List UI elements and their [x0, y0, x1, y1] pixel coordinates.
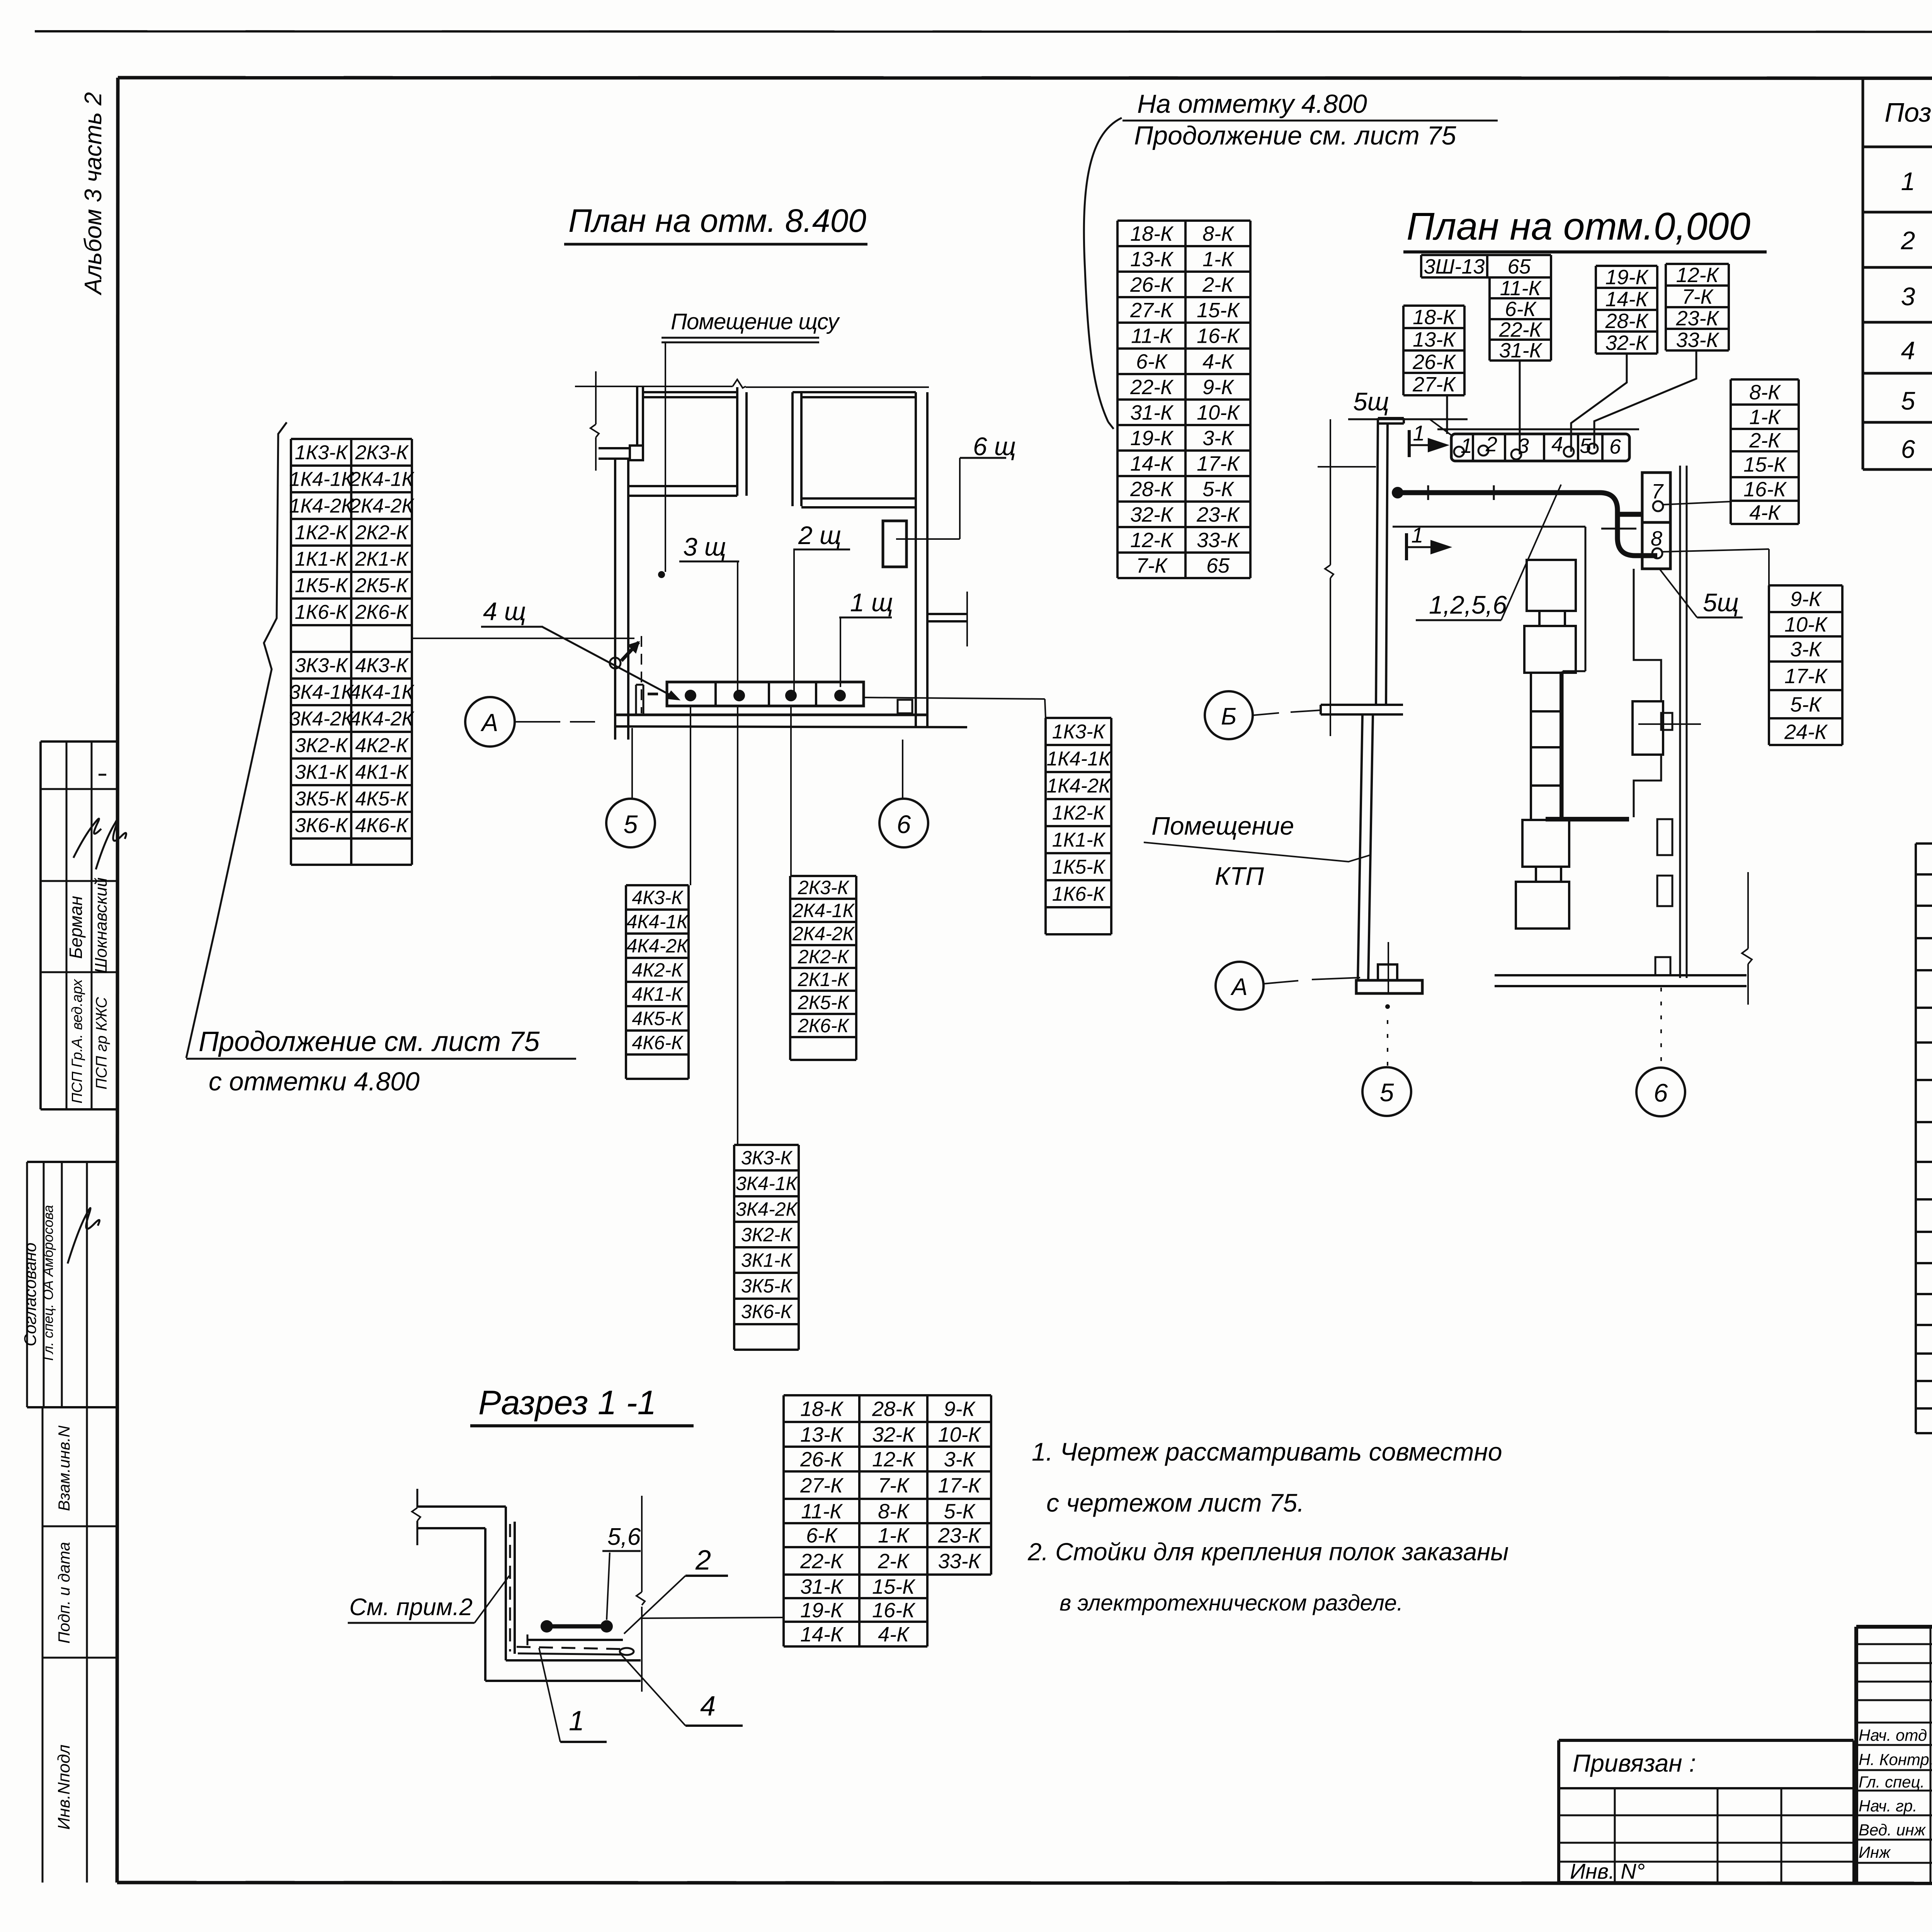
- svg-text:4 щ: 4 щ: [483, 597, 526, 626]
- plan 0,000 left wall upper: [1376, 418, 1378, 705]
- svg-text:7-К: 7-К: [878, 1474, 910, 1497]
- svg-text:3-К: 3-К: [1202, 427, 1235, 450]
- axis line top of plan 8.400: [575, 386, 733, 387]
- svg-text:3К4-2К: 3К4-2К: [289, 708, 354, 730]
- room bottom wall: [615, 714, 927, 716]
- svg-text:7-К: 7-К: [1136, 554, 1168, 577]
- tick marks on cable: [1427, 485, 1429, 500]
- svg-text:3-К: 3-К: [944, 1448, 976, 1471]
- svg-text:Инж: Инж: [1859, 1843, 1891, 1861]
- svg-text:10-К: 10-К: [1784, 613, 1828, 636]
- svg-text:1: 1: [1461, 434, 1472, 457]
- svg-text:65: 65: [1507, 255, 1531, 278]
- column table 8-К..4-К: [1731, 378, 1799, 381]
- svg-text:2-К: 2-К: [1749, 429, 1781, 452]
- svg-text:27-К: 27-К: [1130, 299, 1174, 322]
- svg-text:1К5-К: 1К5-К: [1052, 856, 1106, 878]
- svg-text:6-К: 6-К: [1505, 298, 1537, 321]
- svg-text:Б: Б: [1221, 703, 1236, 730]
- cable table 4К column (below plan): [626, 884, 689, 886]
- inner wall top left: [736, 387, 738, 496]
- svg-text:4К4-2К: 4К4-2К: [350, 708, 415, 730]
- plan 0,000 outer wall top: [1378, 417, 1404, 419]
- svg-text:1К3-К: 1К3-К: [1052, 721, 1106, 743]
- svg-text:1К2-К: 1К2-К: [1052, 802, 1106, 824]
- drawing frame: [118, 78, 1932, 78]
- svg-text:1К4-1К: 1К4-1К: [289, 468, 354, 491]
- svg-text:4: 4: [700, 1691, 716, 1722]
- dashed riser in left wall: [641, 636, 642, 713]
- heavy pneumatic cable run: [1392, 487, 1403, 498]
- svg-text:6 щ: 6 щ: [973, 432, 1016, 461]
- svg-text:2К4-2К: 2К4-2К: [792, 923, 855, 945]
- svg-text:1К6-К: 1К6-К: [1052, 883, 1106, 905]
- section wall contour: [417, 1505, 506, 1508]
- svg-text:4: 4: [1551, 433, 1563, 456]
- svg-text:2К5-К: 2К5-К: [798, 992, 850, 1014]
- wall line above strip: [1437, 429, 1639, 430]
- svg-text:33-К: 33-К: [1197, 529, 1240, 552]
- svg-text:6-К: 6-К: [1136, 350, 1168, 373]
- inner wall top middle: [791, 392, 794, 506]
- floor channel (dashed wedge): [517, 1647, 628, 1649]
- svg-text:23-К: 23-К: [1196, 503, 1240, 526]
- title block signature grid: [1856, 1643, 1932, 1645]
- sheet top edge line: [35, 31, 1932, 32]
- grid bubble А plan 8.400: [465, 697, 515, 747]
- svg-text:1: 1: [1413, 421, 1425, 445]
- wall stub top left: [636, 387, 638, 447]
- svg-text:2К4-1К: 2К4-1К: [349, 468, 415, 491]
- bracket curve top left of plan 0,000: [1084, 118, 1122, 422]
- svg-text:Помещение: Помещение: [1151, 811, 1294, 840]
- svg-text:Берман: Берман: [66, 896, 86, 959]
- grid bubble 6 plan 0,000: [1660, 988, 1662, 1066]
- svg-text:9-К: 9-К: [944, 1397, 976, 1420]
- svg-text:11-К: 11-К: [1131, 324, 1173, 347]
- section marker 1-1 lower: [1405, 533, 1408, 560]
- svg-text:32-К: 32-К: [1605, 331, 1649, 354]
- svg-text:19-К: 19-К: [1605, 265, 1649, 289]
- svg-text:На отметку 4.800: На отметку 4.800: [1137, 89, 1367, 119]
- svg-text:13-К: 13-К: [800, 1423, 844, 1446]
- wall stub right: [927, 613, 967, 615]
- svg-text:5-К: 5-К: [1790, 693, 1822, 716]
- svg-text:24-К: 24-К: [1784, 720, 1828, 743]
- svg-text:3К4-2К: 3К4-2К: [736, 1199, 798, 1220]
- svg-text:с отметки 4.800: с отметки 4.800: [209, 1067, 420, 1096]
- svg-text:4К1-К: 4К1-К: [355, 761, 409, 784]
- svg-text:32-К: 32-К: [872, 1423, 916, 1446]
- svg-text:1К4-2К: 1К4-2К: [1046, 775, 1112, 797]
- svg-text:15-К: 15-К: [1197, 299, 1240, 322]
- svg-text:4К4-1К: 4К4-1К: [350, 681, 415, 704]
- svg-text:2К3-К: 2К3-К: [355, 442, 409, 464]
- svg-text:17-К: 17-К: [938, 1474, 982, 1497]
- svg-text:10-К: 10-К: [1197, 401, 1240, 424]
- svg-text:5щ: 5щ: [1353, 387, 1389, 416]
- svg-text:32-К: 32-К: [1130, 503, 1174, 526]
- shelf row with four panels: [667, 682, 864, 706]
- grid bubble А plan 0,000: [1216, 962, 1264, 1010]
- svg-text:5,6: 5,6: [607, 1524, 641, 1550]
- svg-text:3: 3: [1901, 282, 1915, 311]
- svg-text:4К5-К: 4К5-К: [355, 788, 409, 810]
- svg-text:28-К: 28-К: [1130, 478, 1174, 501]
- svg-text:1: 1: [569, 1706, 584, 1736]
- svg-text:65: 65: [1206, 554, 1230, 577]
- svg-text:4: 4: [1901, 336, 1915, 365]
- section marker 1-1 upper: [1408, 430, 1411, 457]
- grid bubble 5 plan 0,000: [1385, 1004, 1390, 1009]
- svg-text:26-К: 26-К: [800, 1448, 844, 1471]
- svg-text:4К2-К: 4К2-К: [355, 735, 409, 757]
- svg-text:8-К: 8-К: [1749, 381, 1781, 404]
- svg-text:3К6-К: 3К6-К: [295, 815, 349, 837]
- svg-text:Шокнавский: Шокнавский: [92, 878, 111, 973]
- svg-text:Альбом 3 часть 2: Альбом 3 часть 2: [80, 92, 107, 296]
- svg-text:1-К: 1-К: [1749, 405, 1781, 429]
- svg-text:1К1-К: 1К1-К: [295, 548, 349, 570]
- svg-text:5: 5: [624, 810, 638, 838]
- svg-text:1К4-1К: 1К4-1К: [1046, 748, 1112, 770]
- cable table 18-К/8-К (left of plan 0,000): [1117, 219, 1250, 222]
- svg-text:Вед. инж: Вед. инж: [1859, 1821, 1926, 1839]
- svg-text:23-К: 23-К: [1676, 307, 1720, 330]
- conveyor double line: [1679, 466, 1681, 978]
- svg-text:5-К: 5-К: [944, 1500, 976, 1523]
- svg-text:31-К: 31-К: [1499, 339, 1543, 362]
- svg-text:Согласовано: Согласовано: [21, 1243, 40, 1346]
- svg-text:1К6-К: 1К6-К: [295, 601, 349, 624]
- svg-text:Гл. спец.: Гл. спец.: [1859, 1773, 1925, 1791]
- svg-text:31-К: 31-К: [800, 1575, 844, 1598]
- wire from box 7 to table: [1663, 502, 1731, 505]
- svg-text:4К1-К: 4К1-К: [632, 983, 684, 1005]
- узел А table: [1916, 842, 1932, 845]
- svg-text:26-К: 26-К: [1412, 350, 1456, 374]
- svg-text:2: 2: [1485, 433, 1497, 456]
- svg-text:2К2-К: 2К2-К: [355, 522, 409, 544]
- grid bubble 6 plan 8.400: [902, 740, 903, 798]
- room left wall: [614, 459, 616, 740]
- dimension line right of shelf: [641, 1496, 643, 1592]
- svg-text:3К4-1К: 3К4-1К: [289, 681, 354, 704]
- svg-text:12-К: 12-К: [872, 1448, 916, 1471]
- stamp signatures top: [73, 819, 101, 858]
- heavy floor bar: [1546, 817, 1629, 821]
- svg-text:1-К: 1-К: [1202, 248, 1235, 271]
- junction boxes 7 and 8: [1642, 473, 1670, 569]
- svg-text:1,2,5,6: 1,2,5,6: [1429, 590, 1507, 619]
- inner room outline: [1393, 526, 1585, 528]
- svg-text:Продолжение см. лист 75: Продолжение см. лист 75: [199, 1026, 540, 1057]
- svg-text:ПСП Гр.А. вед.арх: ПСП Гр.А. вед.арх: [69, 978, 85, 1103]
- svg-text:1К1-К: 1К1-К: [1052, 829, 1106, 851]
- svg-text:3К1-К: 3К1-К: [741, 1250, 793, 1271]
- stamp section Согласовано: [27, 1161, 117, 1163]
- panel 6щ on wall: [883, 521, 906, 567]
- svg-text:3К2-К: 3К2-К: [741, 1224, 793, 1246]
- leader line from left tables to plan: [412, 638, 634, 639]
- svg-text:2К4-2К: 2К4-2К: [349, 495, 415, 517]
- svg-text:23-К: 23-К: [938, 1524, 982, 1547]
- cable table 3К column (lower): [734, 1144, 799, 1146]
- svg-text:Нач. гр.: Нач. гр.: [1859, 1797, 1917, 1815]
- svg-text:6: 6: [897, 810, 911, 838]
- svg-text:4-К: 4-К: [1202, 350, 1235, 373]
- svg-text:26-К: 26-К: [1130, 273, 1174, 296]
- svg-text:3К2-К: 3К2-К: [295, 735, 349, 757]
- leader from Помещение щсу: [665, 342, 666, 572]
- svg-text:14-К: 14-К: [1605, 287, 1649, 311]
- table 3Ш-13 / 65: [1421, 254, 1551, 256]
- column table 19-К..32-К: [1596, 265, 1657, 267]
- svg-text:Нач. отд: Нач. отд: [1859, 1726, 1927, 1744]
- svg-text:31-К: 31-К: [1130, 401, 1174, 424]
- svg-text:3К3-К: 3К3-К: [295, 655, 349, 677]
- svg-text:2К6-К: 2К6-К: [355, 601, 409, 624]
- svg-text:15-К: 15-К: [1743, 453, 1787, 476]
- svg-text:8-К: 8-К: [878, 1500, 910, 1523]
- svg-text:22-К: 22-К: [1499, 318, 1543, 341]
- plan 0,000 left wall lower: [1358, 714, 1362, 980]
- svg-text:11-К: 11-К: [1500, 277, 1542, 300]
- svg-text:План на отм. 8.400: План на отм. 8.400: [568, 202, 866, 239]
- svg-text:16-К: 16-К: [1197, 324, 1240, 347]
- svg-text:12-К: 12-К: [1130, 529, 1174, 552]
- svg-text:33-К: 33-К: [1676, 328, 1720, 352]
- svg-text:4К3-К: 4К3-К: [355, 655, 409, 677]
- room right wall: [915, 392, 917, 726]
- svg-text:4-К: 4-К: [878, 1623, 910, 1646]
- svg-text:16-К: 16-К: [872, 1599, 916, 1622]
- svg-text:3К5-К: 3К5-К: [295, 788, 349, 810]
- svg-text:4К4-1К: 4К4-1К: [626, 911, 689, 933]
- svg-text:4К3-К: 4К3-К: [632, 887, 684, 908]
- svg-text:Инв. N°: Инв. N°: [1570, 1859, 1645, 1883]
- parts specification table: [1862, 78, 1864, 469]
- grid bubble Б plan 0,000: [1205, 691, 1253, 739]
- wire from box 8 to 9-К table: [1662, 549, 1769, 552]
- svg-text:4К6-К: 4К6-К: [355, 815, 409, 837]
- svg-text:См. прим.2: См. прим.2: [349, 1594, 473, 1621]
- cable table 1К-К column (right of plan): [1046, 717, 1111, 719]
- leader from shelf to 1К table: [864, 697, 1045, 699]
- svg-text:2К1-К: 2К1-К: [355, 548, 409, 570]
- svg-text:1К2-К: 1К2-К: [295, 522, 349, 544]
- svg-text:А: А: [1230, 974, 1247, 1000]
- shelf in section: [547, 1624, 607, 1629]
- right dimension line with break: [1747, 872, 1749, 949]
- svg-text:А: А: [480, 709, 498, 736]
- svg-text:7: 7: [1651, 480, 1664, 503]
- svg-text:17-К: 17-К: [1784, 665, 1828, 688]
- svg-text:2 щ: 2 щ: [798, 521, 841, 549]
- svg-text:6: 6: [1901, 435, 1915, 463]
- svg-text:2К6-К: 2К6-К: [798, 1015, 850, 1037]
- svg-text:Взам.инв.N: Взам.инв.N: [55, 1425, 73, 1511]
- svg-text:2К5-К: 2К5-К: [355, 575, 409, 597]
- svg-text:8-К: 8-К: [1202, 222, 1235, 245]
- slab at axis Б: [1321, 704, 1403, 706]
- svg-text:3К4-1К: 3К4-1К: [736, 1173, 798, 1194]
- svg-text:1-К: 1-К: [878, 1524, 910, 1547]
- svg-text:15-К: 15-К: [872, 1575, 916, 1598]
- dash mark left of shelf: [648, 693, 658, 696]
- svg-text:2: 2: [1901, 226, 1915, 255]
- svg-text:Поз: Поз: [1884, 97, 1931, 128]
- svg-text:6: 6: [1654, 1078, 1668, 1107]
- svg-text:План на отм.0,000: План на отм.0,000: [1406, 205, 1750, 248]
- svg-text:11-К: 11-К: [801, 1500, 843, 1523]
- svg-text:2: 2: [695, 1545, 711, 1576]
- wall cap at axis А: [1356, 980, 1422, 993]
- svg-text:5-К: 5-К: [1202, 478, 1235, 501]
- axis line left of wall: [1318, 466, 1376, 468]
- svg-text:6: 6: [1609, 435, 1621, 458]
- small column on bottom wall right: [898, 700, 912, 713]
- svg-text:14-К: 14-К: [800, 1623, 844, 1646]
- cable table 18-К 28-К 9-К: [784, 1394, 991, 1396]
- svg-text:22-К: 22-К: [1130, 376, 1174, 399]
- svg-text:28-К: 28-К: [1605, 310, 1649, 333]
- привязан box: [1559, 1739, 1854, 1742]
- svg-text:9-К: 9-К: [1202, 376, 1235, 399]
- column table 18-К..27-К: [1403, 304, 1464, 307]
- channel on wall (dashed): [514, 1522, 516, 1654]
- column table 12-К..33-К: [1666, 263, 1729, 265]
- title block outer: [1856, 1625, 1932, 1629]
- svg-text:33-К: 33-К: [938, 1549, 982, 1573]
- svg-text:2-К: 2-К: [878, 1549, 910, 1573]
- riser arrow: [621, 642, 639, 661]
- svg-text:19-К: 19-К: [800, 1599, 844, 1622]
- grid bubble 5 plan 8.400: [631, 728, 633, 798]
- instrument strip with positions 1..6: [1451, 434, 1629, 461]
- svg-text:13-К: 13-К: [1413, 328, 1456, 351]
- svg-text:Помещение щсу: Помещение щсу: [671, 309, 840, 334]
- svg-text:18-К: 18-К: [1130, 222, 1174, 245]
- svg-text:4К6-К: 4К6-К: [632, 1032, 684, 1054]
- cable drop lines below shelf: [690, 706, 691, 885]
- equipment ladder boxes: [1527, 560, 1576, 611]
- column table 11-К..31-К: [1490, 276, 1551, 279]
- svg-text:2К4-1К: 2К4-1К: [792, 900, 855, 922]
- svg-text:22-К: 22-К: [800, 1549, 844, 1573]
- svg-text:13-К: 13-К: [1130, 248, 1174, 271]
- svg-text:7-К: 7-К: [1682, 285, 1714, 308]
- svg-text:Инв.Nподл: Инв.Nподл: [54, 1745, 73, 1830]
- svg-text:27-К: 27-К: [1412, 373, 1456, 396]
- svg-text:Привязан :: Привязан :: [1573, 1749, 1696, 1777]
- svg-text:4-К: 4-К: [1749, 501, 1781, 524]
- svg-text:ПСП гр КЖС: ПСП гр КЖС: [93, 997, 110, 1089]
- svg-text:3 щ: 3 щ: [683, 532, 726, 561]
- svg-text:Продолжение см. лист 75: Продолжение см. лист 75: [1134, 121, 1456, 150]
- svg-text:4К5-К: 4К5-К: [632, 1008, 684, 1029]
- svg-text:3-К: 3-К: [1790, 638, 1822, 661]
- svg-text:в электротехническом разделе.: в электротехническом разделе.: [1060, 1590, 1403, 1616]
- svg-text:18-К: 18-К: [1413, 306, 1456, 329]
- svg-text:Гл. спец. ОА Амбросова: Гл. спец. ОА Амбросова: [40, 1205, 56, 1361]
- svg-text:10-К: 10-К: [938, 1423, 982, 1446]
- svg-text:с чертежом лист 75.: с чертежом лист 75.: [1046, 1488, 1304, 1517]
- svg-text:Разрез 1 -1: Разрез 1 -1: [478, 1383, 656, 1422]
- svg-text:14-К: 14-К: [1130, 452, 1174, 475]
- stamp rows Взам.инв.№ / Подп. и дата / Инв.№подл: [42, 1407, 44, 1883]
- svg-text:3К3-К: 3К3-К: [741, 1147, 793, 1169]
- svg-text:3Ш-13: 3Ш-13: [1424, 255, 1485, 278]
- svg-text:19-К: 19-К: [1130, 427, 1174, 450]
- small column left of shelf: [635, 685, 637, 714]
- svg-text:6-К: 6-К: [806, 1524, 838, 1547]
- connector wires from tables to strip: [1446, 395, 1448, 434]
- svg-text:3К6-К: 3К6-К: [741, 1301, 793, 1323]
- svg-text:4К4-2К: 4К4-2К: [626, 935, 689, 957]
- svg-text:28-К: 28-К: [872, 1397, 916, 1420]
- svg-text:16-К: 16-К: [1743, 478, 1787, 501]
- long bracket leader to left tables: [186, 422, 287, 1058]
- svg-text:9-К: 9-К: [1790, 587, 1822, 611]
- svg-text:8: 8: [1651, 527, 1662, 550]
- svg-text:17-К: 17-К: [1197, 452, 1240, 475]
- svg-text:5щ: 5щ: [1703, 588, 1739, 617]
- svg-text:2-К: 2-К: [1202, 273, 1235, 296]
- left stamp column boxes: [41, 740, 117, 743]
- svg-text:5: 5: [1380, 1078, 1394, 1107]
- bottom floor slab: [1495, 974, 1747, 976]
- svg-text:3К1-К: 3К1-К: [295, 761, 349, 784]
- svg-text:5: 5: [1901, 386, 1915, 415]
- column table 9-К..24-К: [1769, 584, 1842, 587]
- svg-text:1: 1: [1901, 167, 1915, 196]
- svg-text:1К4-2К: 1К4-2К: [289, 495, 354, 517]
- step profile column: [1634, 569, 1661, 701]
- cable table 1К/2К and 3К/4К (left tall table): [291, 438, 412, 440]
- cable table 2К column (below plan): [790, 875, 856, 877]
- svg-text:12-К: 12-К: [1676, 264, 1720, 287]
- svg-text:27-К: 27-К: [800, 1474, 844, 1497]
- svg-text:18-К: 18-К: [800, 1397, 844, 1420]
- svg-text:3К5-К: 3К5-К: [741, 1275, 793, 1297]
- svg-text:2. Стойки для крепления полок: 2. Стойки для крепления полок заказаны: [1027, 1538, 1509, 1566]
- svg-text:Н. Контр.: Н. Контр.: [1859, 1750, 1932, 1769]
- svg-text:1. Чертеж рассматривать сов: 1. Чертеж рассматривать совместно: [1032, 1437, 1502, 1466]
- svg-text:1 щ: 1 щ: [850, 588, 893, 617]
- svg-text:5: 5: [1580, 434, 1592, 457]
- left vertical axis line plan 0,000: [1330, 419, 1331, 565]
- svg-text:4К2-К: 4К2-К: [632, 959, 684, 981]
- svg-text:КТП: КТП: [1215, 862, 1264, 890]
- svg-text:2К1-К: 2К1-К: [798, 969, 850, 990]
- leader to 18-К table: [642, 1617, 784, 1618]
- svg-text:Подп. и дата: Подп. и дата: [55, 1542, 73, 1644]
- svg-text:1К3-К: 1К3-К: [295, 442, 349, 464]
- svg-text:1К5-К: 1К5-К: [295, 575, 349, 597]
- svg-text:2К3-К: 2К3-К: [798, 877, 850, 898]
- svg-text:2К2-К: 2К2-К: [798, 946, 850, 968]
- axis tick left: [595, 371, 597, 401]
